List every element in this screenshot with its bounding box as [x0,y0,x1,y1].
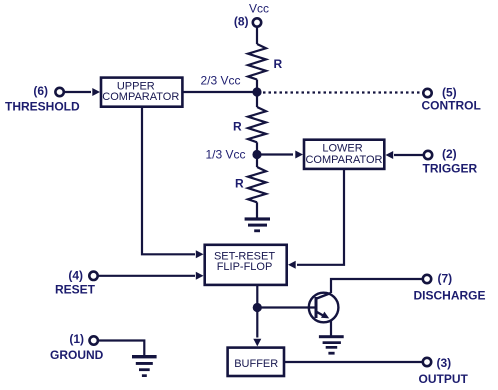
svg-text:Vcc: Vcc [249,2,269,16]
svg-text:(3): (3) [437,356,452,370]
svg-text:(8): (8) [234,15,249,29]
svg-text:COMPARATOR: COMPARATOR [305,154,382,166]
svg-text:THRESHOLD: THRESHOLD [5,100,80,114]
svg-text:DISCHARGE: DISCHARGE [414,289,486,303]
svg-text:LOWER: LOWER [322,143,362,155]
svg-text:RESET: RESET [55,283,96,297]
svg-text:2/3 Vcc: 2/3 Vcc [200,74,240,88]
svg-text:BUFFER: BUFFER [234,358,278,370]
svg-text:GROUND: GROUND [50,348,104,362]
svg-text:TRIGGER: TRIGGER [423,162,478,176]
svg-text:FLIP-FLOP: FLIP-FLOP [217,261,273,273]
svg-text:R: R [235,177,244,191]
svg-text:R: R [233,120,242,134]
svg-text:(2): (2) [442,147,457,161]
svg-text:(1): (1) [69,332,84,346]
svg-text:R: R [274,57,283,71]
svg-text:CONTROL: CONTROL [422,99,481,113]
svg-text:COMPARATOR: COMPARATOR [102,91,179,103]
svg-text:1/3 Vcc: 1/3 Vcc [205,148,245,162]
svg-text:(4): (4) [68,269,83,283]
svg-text:OUTPUT: OUTPUT [419,372,469,386]
svg-text:(7): (7) [438,272,453,286]
svg-text:(5): (5) [442,86,457,100]
svg-text:(6): (6) [33,84,48,98]
